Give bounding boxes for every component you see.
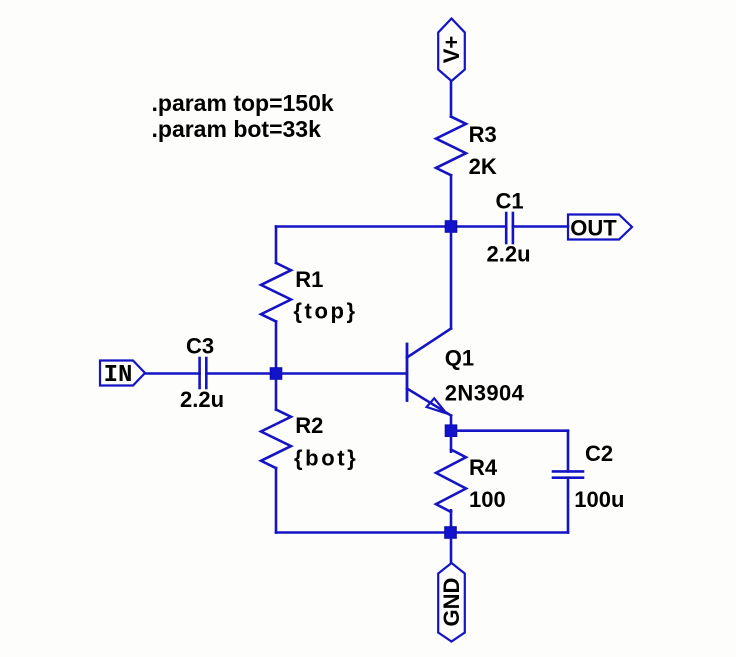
svg-text:Q1: Q1 bbox=[445, 346, 474, 371]
wire C2 top lead bbox=[567, 431, 570, 472]
flag OUT bbox=[568, 215, 632, 240]
resistor R3 bbox=[436, 117, 466, 176]
svg-text:C2: C2 bbox=[585, 441, 613, 466]
svg-text:2K: 2K bbox=[469, 154, 497, 179]
svg-text:100: 100 bbox=[469, 487, 506, 512]
junction node emitter bbox=[445, 425, 457, 437]
wire R1 to node IN bbox=[275, 322, 278, 374]
svg-text:R2: R2 bbox=[295, 413, 323, 438]
wire emitter node to C2 (top) bbox=[451, 429, 568, 432]
resistor R4 bbox=[436, 450, 466, 513]
svg-text:.param bot=33k: .param bot=33k bbox=[152, 116, 322, 142]
resistor R1 bbox=[261, 263, 291, 322]
wire C3 to base node bbox=[206, 372, 276, 375]
flag IN bbox=[100, 361, 145, 386]
wire V+ to R3 bbox=[450, 81, 453, 117]
capacitor C3 bbox=[200, 358, 207, 388]
capacitor C2 bbox=[553, 471, 583, 477]
junction node ground bbox=[445, 527, 457, 539]
Q1 collector diagonal bbox=[407, 329, 451, 358]
wire R1 top lead (corner down) bbox=[275, 227, 278, 263]
wire node to C1 bbox=[451, 225, 505, 228]
Q1 emitter arrow bbox=[427, 398, 447, 413]
wire top horizontal (node to R1 corner) bbox=[276, 225, 451, 228]
svg-text:IN: IN bbox=[104, 362, 133, 389]
capacitor C1 bbox=[506, 213, 513, 243]
wire R2 bottom corner bbox=[275, 374, 278, 410]
transistor Q1 bbox=[407, 227, 451, 431]
flag GND bbox=[438, 563, 465, 642]
wire C2 bottom lead bbox=[567, 478, 570, 533]
svg-text:R1: R1 bbox=[295, 267, 323, 292]
svg-text:C1: C1 bbox=[496, 189, 524, 214]
svg-text:GND: GND bbox=[439, 578, 464, 627]
svg-text:OUT: OUT bbox=[570, 216, 617, 241]
Q1 collector stub bbox=[450, 227, 453, 329]
svg-text:100u: 100u bbox=[574, 487, 624, 512]
Q1 base bar bbox=[406, 344, 409, 401]
wire R2 to bottom rail bbox=[275, 468, 278, 532]
svg-text:V+: V+ bbox=[439, 36, 464, 64]
svg-text:C3: C3 bbox=[186, 334, 214, 359]
junction node OUT (top) bbox=[445, 221, 457, 233]
svg-text:R4: R4 bbox=[469, 455, 498, 480]
wire R3 to node OUT bbox=[450, 175, 453, 226]
svg-text:.param top=150k: .param top=150k bbox=[152, 90, 334, 116]
junction node base bbox=[270, 368, 282, 380]
wire emitter node to R4 bbox=[450, 431, 453, 452]
svg-text:{top}: {top} bbox=[293, 299, 357, 324]
flag V+ bbox=[438, 19, 465, 82]
wire C1 to OUT flag bbox=[513, 225, 568, 228]
Q1 emitter diagonal bbox=[407, 389, 451, 416]
svg-text:2.2u: 2.2u bbox=[487, 242, 531, 267]
resistor R2 bbox=[261, 410, 291, 469]
svg-text:2.2u: 2.2u bbox=[180, 387, 224, 412]
wire bottom rail (right) bbox=[451, 531, 568, 534]
wire base node to Q1 base bbox=[276, 372, 407, 375]
wire IN flag to C3 bbox=[145, 372, 200, 375]
svg-text:2N3904: 2N3904 bbox=[445, 381, 525, 406]
svg-text:{bot}: {bot} bbox=[294, 446, 358, 471]
wire bottom rail (left) bbox=[276, 531, 451, 534]
wire ground node to GND flag bbox=[450, 533, 453, 564]
Q1 emitter stub bbox=[450, 416, 453, 431]
svg-text:R3: R3 bbox=[469, 122, 497, 147]
wire R4 to ground node bbox=[450, 510, 453, 532]
